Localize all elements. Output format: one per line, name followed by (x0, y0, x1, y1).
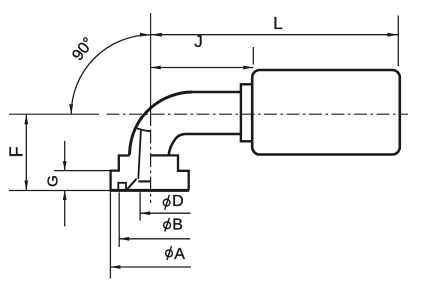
svg-text:B: B (172, 217, 183, 234)
svg-text:L: L (273, 13, 283, 33)
svg-text:J: J (194, 32, 203, 51)
svg-text:F: F (6, 146, 26, 157)
svg-text:G: G (44, 175, 61, 187)
svg-text:A: A (174, 246, 185, 263)
svg-text:D: D (172, 193, 184, 210)
